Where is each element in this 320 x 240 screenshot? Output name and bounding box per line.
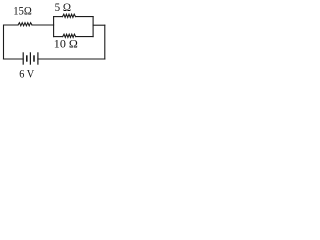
resistor R1 15Ω [18, 23, 32, 26]
battery B1 plate long 3 [37, 52, 39, 64]
wire: bottom left segment from battery to left corner [4, 58, 24, 60]
battery B1 plate long 1 [22, 52, 24, 64]
wire: outer right edge down to bottom [104, 25, 106, 59]
wire: bottom right segment to battery positive plate [38, 58, 105, 60]
resistor R3 10Ω [63, 34, 76, 37]
wire: bottom branch left segment [54, 36, 63, 38]
resistor R2 5Ω [63, 14, 76, 17]
svg-text:5 Ω: 5 Ω [55, 0, 71, 14]
svg-text:6 V: 6 V [19, 66, 34, 80]
wire: top branch right segment [76, 16, 94, 18]
wire: top segment from R1 to parallel block node A [32, 24, 54, 26]
battery B1 plate short 1 [26, 55, 28, 61]
battery B1 plate short 2 [33, 55, 35, 61]
wire: bottom branch right segment [76, 36, 93, 38]
wire: parallel block left edge (node A) [53, 17, 55, 37]
wire: top-left segment from corner to resistor R1 [4, 25, 19, 59]
battery B1 plate long 2 [29, 52, 31, 64]
svg-text:15Ω: 15Ω [13, 3, 32, 17]
wire: parallel block right edge (node B) [92, 17, 94, 37]
svg-text:10 Ω: 10 Ω [54, 36, 78, 50]
wire: top branch left segment [54, 16, 63, 18]
wire: exit from node B to outer right edge [93, 24, 105, 26]
